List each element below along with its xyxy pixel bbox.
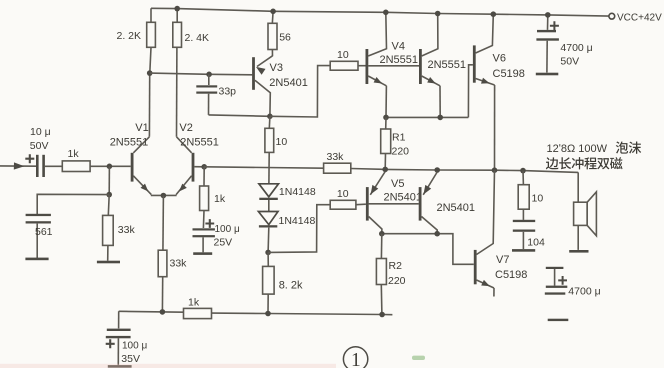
junction dot 4700u rail [545, 12, 551, 18]
junction dot rail 33k [160, 309, 166, 315]
wire output rail [351, 169, 578, 173]
wire V5 base tie [369, 203, 419, 205]
ground 104 [512, 249, 535, 252]
svg-text:8. 2k: 8. 2k [279, 279, 303, 291]
wire diode node to 10 ohm lower [268, 205, 330, 253]
wire bottom rail right [212, 313, 393, 315]
svg-text:2N5551: 2N5551 [428, 59, 467, 71]
svg-text:33k: 33k [170, 258, 188, 270]
label CJK ci [610, 157, 623, 169]
wire D1 to D2 [268, 200, 270, 212]
wire V3 collector to 10 ohm upper [270, 66, 330, 117]
svg-text:100 μ: 100 μ [122, 341, 147, 352]
svg-text:VCC+42V: VCC+42V [617, 12, 662, 23]
junction dot V6 collector rail [491, 11, 497, 17]
circled figure number 1 [343, 347, 367, 371]
diode D2 1N4148 [258, 212, 278, 225]
junction dot 33p tap [206, 72, 212, 78]
svg-text:25V: 25V [214, 237, 233, 249]
capacitor 104 [513, 220, 535, 222]
svg-text:1k: 1k [188, 296, 200, 308]
resistor 33k emitter [158, 250, 167, 277]
resistor 10 diode chain [268, 116, 271, 128]
ground 33k input [97, 261, 120, 264]
junction dot rail R2 [379, 312, 385, 318]
junction dot rail output [492, 167, 498, 173]
junction dot V2 base [201, 164, 207, 170]
junction dot node A2 [106, 192, 112, 198]
label CJK shuang [597, 158, 609, 169]
junction dot V5 collector [379, 231, 385, 237]
wire to capacitor 561 [37, 194, 109, 214]
svg-text:33k: 33k [118, 224, 136, 236]
svg-text:2N5401: 2N5401 [269, 77, 308, 89]
svg-text:12ʹ8Ω 100W: 12ʹ8Ω 100W [547, 143, 608, 155]
junction dot diode bottom [265, 250, 271, 256]
capacitor 100u 35V [118, 311, 120, 328]
wire V4 emitters junction [386, 116, 468, 118]
svg-text:10: 10 [337, 49, 349, 61]
label CJK chong [572, 157, 584, 169]
label speaker spec line2 CJK bian [546, 157, 559, 169]
svg-text:2N5551: 2N5551 [380, 54, 419, 66]
wire bottom rail left [119, 310, 184, 313]
wire V5 collectors junction [382, 234, 474, 265]
svg-text:33k: 33k [327, 151, 345, 163]
label CJK mo [629, 141, 641, 153]
resistor 2.4K [176, 9, 178, 23]
svg-text:C5198: C5198 [493, 68, 525, 80]
junction dot V5b collector [434, 231, 440, 237]
wire node to V3 base [150, 73, 253, 75]
wire feedback rail [204, 167, 323, 168]
wire node A down [108, 166, 110, 194]
ground 100u 35V [108, 365, 132, 368]
ground bar output cap [548, 319, 569, 321]
svg-text:2. 2K: 2. 2K [117, 30, 142, 42]
transistor V3 [252, 57, 255, 90]
transistor V5b parallel 2N5401 [419, 187, 422, 221]
capacitor 10u input [36, 155, 39, 177]
label CJK chang [559, 157, 571, 169]
svg-text:V5: V5 [391, 178, 404, 190]
svg-text:33p: 33p [219, 86, 237, 98]
wire emitters down to rail [162, 196, 163, 312]
svg-text:2N5551: 2N5551 [110, 136, 149, 148]
transistor V2 [192, 153, 195, 182]
capacitor 4700u output [546, 267, 564, 269]
junction dot 2.4K top [174, 6, 180, 12]
resistor 33k input bias [107, 195, 110, 216]
svg-text:1k: 1k [68, 148, 80, 160]
VCC terminal [609, 13, 615, 19]
resistor 33k feedback [324, 163, 351, 173]
junction dot rail V5 emitter [382, 167, 388, 173]
junction dot node A [107, 164, 113, 170]
svg-text:V3: V3 [270, 62, 283, 74]
svg-text:1N4148: 1N4148 [279, 186, 316, 198]
svg-text:50V: 50V [30, 140, 49, 152]
svg-text:220: 220 [392, 146, 410, 158]
svg-text:561: 561 [35, 226, 53, 238]
svg-text:10 μ: 10 μ [30, 126, 51, 138]
ground 561 [25, 258, 48, 261]
diode D1 1N4148 [259, 184, 279, 197]
wire input [0, 165, 36, 167]
junction dot V4b collector rail [435, 11, 441, 17]
svg-text:2N5401: 2N5401 [384, 191, 423, 203]
svg-text:10: 10 [532, 193, 544, 205]
capacitor 100u 25V [205, 219, 214, 228]
label CJK cheng [584, 157, 596, 169]
resistor 2.2K [150, 8, 152, 22]
junction dot V4 emitter [383, 115, 389, 121]
resistor 1k input [45, 165, 62, 167]
svg-text:104: 104 [527, 236, 545, 248]
svg-text:10: 10 [276, 136, 288, 148]
junction dot rail zobel [520, 168, 526, 174]
wire common emitter [151, 194, 177, 196]
resistor R1 220 [385, 117, 387, 129]
transistor V4b parallel 2N5551 [419, 49, 422, 84]
junction dot V4 collector rail [383, 10, 389, 16]
wire V2 collector up to 2.4K [176, 47, 178, 137]
capacitor 33p [208, 74, 210, 85]
resistor R2 220 [380, 234, 382, 259]
resistor 8.2k [267, 252, 269, 266]
resistor 10 upper [330, 61, 358, 70]
svg-text:2N5401: 2N5401 [437, 202, 476, 214]
junction dot rail 8.2k [265, 311, 271, 317]
transistor V4 [366, 49, 369, 84]
junction dot V3 collector [267, 114, 273, 120]
resistor 1k V2 base [203, 167, 205, 186]
capacitor 4700u 50V [547, 15, 549, 30]
plus input cap [25, 154, 34, 163]
svg-text:1k: 1k [214, 193, 226, 205]
junction dot V1 collector node [147, 70, 153, 76]
transistor V7 [474, 250, 477, 284]
svg-text:R2: R2 [389, 260, 403, 272]
svg-text:1N4148: 1N4148 [279, 215, 316, 227]
svg-text:10: 10 [337, 188, 349, 200]
svg-text:50V: 50V [560, 56, 579, 68]
svg-text:2. 4K: 2. 4K [185, 32, 210, 44]
wire V2 base to rail [194, 166, 204, 168]
wire VCC top rail [151, 8, 609, 16]
green scan mark [412, 356, 425, 360]
transistor V1 [131, 153, 134, 182]
resistor 10 lower [330, 200, 356, 209]
svg-text:2N5551: 2N5551 [180, 136, 219, 148]
wire V1 collector up [148, 73, 150, 137]
svg-text:C5198: C5198 [495, 269, 527, 281]
svg-text:V6: V6 [493, 53, 506, 65]
wire V4 base tie [368, 65, 419, 67]
ground speaker [569, 250, 588, 253]
label CJK pao [616, 141, 628, 153]
resistor 10 zobel [522, 171, 524, 185]
svg-text:35V: 35V [121, 353, 140, 365]
resistor 56 [271, 11, 274, 22]
svg-text:V4: V4 [392, 41, 405, 53]
svg-text:4700 μ: 4700 μ [568, 285, 600, 297]
svg-text:100 μ: 100 μ [215, 224, 240, 235]
svg-text:V1: V1 [135, 122, 148, 134]
junction dot common emitter [161, 193, 167, 199]
ground 100u 25V [193, 252, 212, 255]
svg-text:V7: V7 [496, 254, 509, 266]
transistor V6 [473, 45, 476, 82]
wire to V6 base [468, 65, 473, 118]
svg-text:4700 μ: 4700 μ [560, 42, 592, 54]
pink scan tint bottom edge [0, 364, 336, 368]
speaker [577, 172, 579, 202]
ground 4700u 50V [536, 73, 559, 76]
capacitor 561 [26, 214, 51, 216]
svg-text:56: 56 [279, 31, 291, 43]
junction dot 56 top [270, 9, 276, 15]
junction dot V4b emitter [437, 115, 443, 121]
resistor 1k bottom [184, 308, 212, 318]
wire D2 to node [267, 228, 270, 253]
svg-text:R1: R1 [392, 132, 406, 144]
svg-text:220: 220 [388, 275, 406, 287]
svg-text:V2: V2 [179, 122, 192, 134]
input arrow [14, 162, 25, 169]
wire 33p to V3 collector node [209, 115, 270, 116]
junction dot rail V5b emitter [434, 167, 440, 173]
svg-text:1: 1 [351, 350, 361, 368]
transistor V5 [366, 187, 369, 221]
